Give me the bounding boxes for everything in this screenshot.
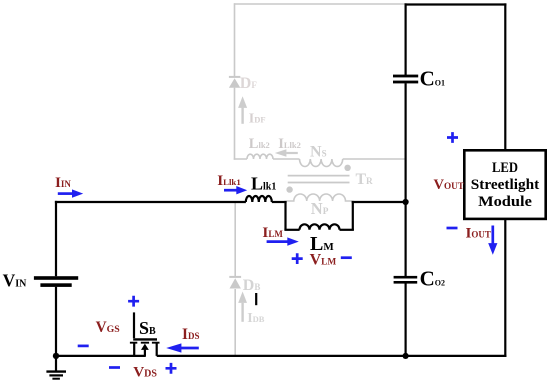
capacitor CO2	[394, 276, 418, 284]
svg-text:CO2: CO2	[420, 267, 445, 291]
current arrow IDF (ghost)	[238, 96, 247, 124]
label VLM	[310, 252, 337, 269]
label DB (ghost)	[243, 277, 261, 294]
wire top rail	[405, 3, 507, 5]
LED Streetlight Module box	[464, 150, 545, 219]
MOSFET SB body leg and arrow	[141, 344, 149, 356]
svg-text:IDB: IDB	[247, 311, 265, 326]
MOSFET SB gate lead	[133, 312, 135, 338]
transformer core TR (ghost)	[288, 176, 350, 183]
capacitor CO1	[393, 75, 418, 84]
current arrow IDB (ghost)	[238, 292, 247, 322]
current arrow IIN	[58, 189, 83, 197]
label VIN	[3, 271, 28, 291]
wire to output node	[352, 201, 406, 203]
plus VLM	[292, 253, 303, 264]
current arrow ILlk2 (ghost)	[275, 149, 298, 157]
MOSFET SB source leg	[133, 343, 135, 356]
plus VOUT	[447, 132, 458, 143]
winding NS (ghost)	[300, 159, 343, 167]
inductor LM	[300, 224, 340, 230]
winding NP (ghost)	[287, 194, 353, 201]
minus VDS	[109, 366, 120, 369]
label VDS	[133, 363, 157, 380]
label IOUT	[466, 224, 491, 241]
wire LM branch bottom left	[284, 229, 299, 231]
svg-text:Llk2: Llk2	[249, 136, 270, 152]
ghost secondary bottom wire	[234, 158, 406, 160]
svg-text:ILlk2: ILlk2	[278, 136, 301, 152]
wire LM branch right vertical	[352, 201, 354, 230]
current arrow ILM	[267, 237, 299, 245]
minus IOUT	[447, 227, 458, 230]
svg-text:VDS: VDS	[133, 363, 157, 380]
svg-text:LED: LED	[492, 159, 518, 176]
label VOUT	[434, 177, 464, 193]
svg-text:Llk1: Llk1	[251, 174, 276, 194]
label IDF (ghost)	[249, 112, 266, 127]
svg-text:IDS: IDS	[182, 326, 199, 343]
node bottom-left junction	[53, 353, 59, 359]
ghost diode branch DB wire	[234, 201, 236, 356]
svg-text:NS: NS	[310, 144, 327, 161]
ghost secondary top rail wire	[234, 3, 406, 5]
wire left vertical above battery	[55, 201, 57, 276]
label VGS	[96, 319, 121, 336]
inductor Llk1	[246, 196, 272, 202]
label Llk2 (ghost)	[249, 136, 270, 152]
plus gate VGS	[128, 296, 139, 307]
svg-text:TR: TR	[356, 171, 374, 188]
svg-text:ILM: ILM	[262, 224, 283, 241]
plus VDS	[166, 363, 177, 374]
svg-text:DB: DB	[243, 277, 261, 294]
wire LM branch left vertical	[284, 201, 286, 230]
label NP (ghost)	[311, 199, 329, 218]
label TR (ghost)	[356, 171, 374, 188]
diode DF (ghost)	[229, 77, 240, 88]
current arrow ILlk1	[224, 186, 247, 194]
label IIN	[55, 174, 71, 191]
wire Llk1 to LM branch	[272, 201, 287, 203]
wire top-left horizontal	[55, 201, 246, 203]
polarity dot NP (ghost)	[286, 186, 292, 192]
svg-text:Streetlight: Streetlight	[471, 176, 540, 193]
svg-text:IDF: IDF	[249, 112, 266, 127]
diode DB (ghost)	[229, 277, 241, 289]
wire left vertical below battery	[55, 287, 57, 356]
ghost secondary left wire	[234, 3, 236, 160]
svg-text:NP: NP	[311, 199, 329, 218]
MOSFET SB gate bar	[133, 338, 157, 340]
polarity dot NS (ghost)	[344, 165, 350, 171]
label DF (ghost)	[240, 75, 258, 92]
label SB	[139, 318, 156, 338]
stray mark near DB	[255, 293, 257, 305]
svg-text:VIN: VIN	[3, 271, 28, 291]
label CO1	[420, 67, 445, 91]
node bottom output junction	[403, 353, 409, 359]
label LM	[310, 233, 334, 255]
MOSFET SB drain leg	[156, 343, 158, 356]
wire LM branch bottom right	[340, 229, 354, 231]
label IDS	[182, 326, 199, 343]
wire right column vertical	[405, 3, 407, 356]
inductor Llk2 (ghost)	[247, 154, 273, 159]
MOSFET SB channel segments	[130, 342, 160, 344]
svg-text:IOUT: IOUT	[466, 224, 491, 241]
current arrow IOUT	[488, 226, 497, 255]
label IDB (ghost)	[247, 311, 265, 326]
label NS (ghost)	[310, 144, 327, 161]
svg-text:Module: Module	[478, 193, 532, 210]
wire bottom right	[157, 355, 507, 357]
svg-text:CO1: CO1	[420, 67, 445, 91]
svg-text:VOUT: VOUT	[434, 177, 464, 193]
label ILlk2 (ghost)	[278, 136, 301, 152]
wire right edge lower	[504, 219, 506, 358]
minus VGS	[78, 345, 89, 348]
label ILM	[262, 224, 283, 241]
svg-text:VGS: VGS	[96, 319, 121, 336]
wire bottom left	[55, 355, 146, 357]
node main output junction	[403, 199, 409, 205]
voltage source VIN battery	[34, 276, 78, 287]
label CO2	[420, 267, 445, 291]
svg-text:IIN: IIN	[55, 174, 71, 191]
ground	[46, 356, 66, 379]
wire right edge upper	[504, 3, 506, 151]
current arrow IDS	[166, 343, 199, 352]
svg-text:DF: DF	[240, 75, 258, 92]
svg-text:SB: SB	[139, 318, 156, 338]
label Llk1	[251, 174, 276, 194]
minus VLM	[341, 256, 352, 259]
label ILlk1	[217, 172, 241, 189]
